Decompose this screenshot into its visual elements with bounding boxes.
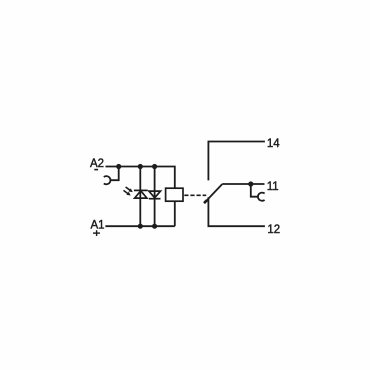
node diode branch bottom bbox=[152, 224, 157, 229]
socket contact at 11 (arc open right) bbox=[258, 193, 265, 201]
svg-text:11: 11 bbox=[267, 181, 279, 193]
wire LED branch vertical bbox=[139, 167, 141, 227]
wire diode branch vertical bbox=[154, 167, 156, 227]
node diode branch top bbox=[152, 164, 157, 169]
svg-text:14: 14 bbox=[267, 138, 280, 150]
wire stub to A2 plug-in socket bbox=[110, 167, 118, 181]
wire A1 bottom rail bbox=[105, 225, 174, 227]
LED indicator cathode bar bbox=[134, 189, 148, 191]
wire terminal 14 with fixed contact bbox=[208, 142, 265, 181]
contact lever tip pad bbox=[204, 200, 207, 203]
svg-text:12: 12 bbox=[267, 224, 280, 236]
socket contact at A2 (arc open left) bbox=[104, 176, 111, 184]
wire stub to 11 plug-in socket bbox=[251, 184, 258, 197]
protection diode cathode bar bbox=[149, 198, 161, 200]
wire terminal 12 with fixed contact bbox=[208, 197, 265, 226]
relay coil K1 bbox=[166, 188, 183, 201]
node LED branch bottom bbox=[138, 224, 143, 229]
wire A2 top rail with corner down to coil bbox=[106, 167, 175, 189]
node junction A2/socket stub bbox=[116, 164, 121, 169]
polarity plus at A1 bbox=[93, 230, 100, 236]
LED light arrow 1 bbox=[126, 187, 133, 192]
svg-text:A2: A2 bbox=[90, 158, 104, 170]
LED indicator triangle bbox=[135, 191, 147, 198]
wire terminal 11 common bbox=[222, 183, 264, 185]
wire coil bottom to A1 rail bbox=[174, 201, 176, 226]
node junction 11/socket stub bbox=[248, 181, 253, 186]
svg-text:A1: A1 bbox=[91, 219, 105, 231]
contact lever (movable) bbox=[204, 184, 222, 203]
polarity minus at A2 bbox=[94, 169, 98, 171]
LED light arrow 2 bbox=[124, 190, 131, 195]
protection diode triangle bbox=[149, 191, 161, 198]
node LED branch top bbox=[138, 164, 143, 169]
actuation dashed link coil to contact bbox=[184, 194, 206, 196]
